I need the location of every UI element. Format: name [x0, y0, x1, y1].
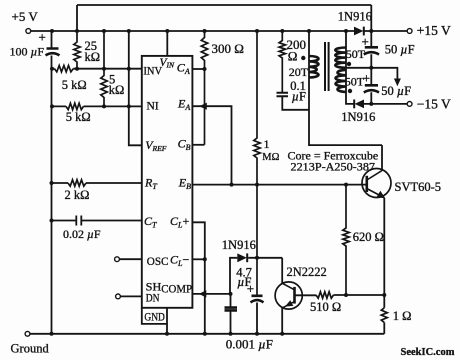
capacitor C1 50uF	[364, 47, 379, 54]
node 510 junctions	[344, 293, 348, 297]
wire INV line	[52, 68, 142, 70]
svg-text:2213P-A250-387: 2213P-A250-387	[291, 160, 376, 174]
svg-text:kΩ: kΩ	[85, 50, 101, 64]
wire CT line	[52, 220, 142, 222]
svg-text:510 Ω: 510 Ω	[310, 300, 341, 314]
wire CA pin	[192, 68, 204, 70]
op-amp U1 box	[142, 56, 193, 308]
wire top loop	[77, 5, 371, 31]
svg-text:50 µF: 50 µF	[381, 84, 411, 98]
resistor 5k horizontal 1	[55, 66, 74, 72]
node secondary phase dot lower	[348, 89, 352, 93]
svg-text:50T: 50T	[345, 74, 365, 88]
transformer primary lead	[309, 31, 382, 145]
wire 0.1uF bottom	[282, 97, 309, 110]
wire Q2 emitter	[281, 308, 283, 334]
capacitor 4.7uF	[251, 296, 264, 303]
svg-text:COMP: COMP	[161, 282, 192, 296]
svg-text:DN: DN	[146, 291, 160, 305]
svg-text:+: +	[362, 34, 369, 49]
wire GND pin	[166, 324, 168, 334]
svg-text:1 Ω: 1 Ω	[393, 309, 412, 323]
wire OSC line	[120, 258, 142, 260]
svg-text:1: 1	[264, 137, 270, 151]
node CA junction	[203, 67, 207, 71]
resistor 510	[316, 292, 334, 298]
capacitor 0.02uF	[76, 216, 81, 226]
svg-text:1N916: 1N916	[341, 110, 375, 124]
svg-text:+: +	[39, 30, 46, 45]
svg-text:kΩ: kΩ	[109, 83, 125, 97]
capacitor 0.1uF	[277, 93, 289, 97]
terminal SH DN	[116, 294, 121, 299]
wire 50uF-1	[370, 31, 372, 68]
svg-text:NI: NI	[147, 98, 159, 112]
terminal +5 V	[26, 29, 31, 34]
wire NI line	[52, 105, 142, 107]
wire COMP line	[192, 293, 230, 295]
svg-text:0.02 µF: 0.02 µF	[63, 227, 101, 241]
svg-text:−15 V: −15 V	[417, 97, 451, 112]
arrow EA	[199, 103, 207, 110]
resistor 200	[279, 31, 285, 92]
node +5V rail junctions	[50, 29, 54, 33]
wire left bus	[51, 31, 53, 334]
wire Q1 emitter	[383, 198, 385, 334]
svg-text:620 Ω: 620 Ω	[353, 230, 384, 244]
svg-text:µF: µF	[292, 90, 306, 104]
op-amp U1 GND box	[142, 308, 167, 324]
svg-text:1N916: 1N916	[338, 9, 372, 23]
resistor 2k	[68, 180, 86, 186]
svg-text:50T: 50T	[346, 47, 366, 61]
svg-text:5 kΩ: 5 kΩ	[66, 110, 91, 124]
arrow COMP	[199, 290, 207, 297]
transformer secondary winding 50T lower	[336, 70, 347, 92]
svg-text:50 µF: 50 µF	[385, 42, 415, 56]
terminal +15V	[407, 29, 412, 34]
node secondary phase dot upper	[347, 62, 351, 66]
svg-text:Ω: Ω	[288, 48, 298, 63]
svg-text:+5 V: +5 V	[12, 9, 39, 24]
svg-text:SeekIC.com: SeekIC.com	[401, 347, 455, 358]
wire EA line	[192, 106, 231, 184]
svg-text:Ground: Ground	[11, 341, 50, 355]
node COMP junction	[229, 292, 233, 296]
wire Q1 collector drop	[381, 145, 383, 171]
svg-text:GND: GND	[144, 310, 165, 324]
wire 0.001uF drop	[230, 294, 232, 334]
svg-text:300 Ω: 300 Ω	[212, 41, 244, 56]
wire Q2 base line	[295, 294, 385, 296]
resistor 5k vertical	[101, 31, 107, 106]
arrow common down	[394, 79, 401, 87]
diode D1 1N916 top	[354, 27, 363, 36]
svg-text:+: +	[363, 71, 370, 86]
capacitor 100uF	[46, 49, 60, 56]
wire diode row	[230, 258, 282, 294]
wire CL- line	[192, 258, 204, 260]
node CL- junction	[203, 257, 207, 261]
svg-text:MΩ: MΩ	[262, 152, 279, 163]
wire CB pin	[192, 144, 204, 146]
resistor 1 Ohm	[381, 308, 387, 323]
resistor 620	[343, 185, 349, 295]
svg-text:2N2222: 2N2222	[287, 265, 327, 279]
svg-text:OSC: OSC	[147, 254, 169, 268]
svg-text:20T: 20T	[289, 65, 309, 79]
capacitor 0.001uF	[225, 308, 238, 311]
node primary phase dot	[301, 56, 305, 60]
node center tap junction	[369, 66, 373, 70]
resistor 1M	[254, 31, 260, 296]
terminal Ground	[25, 331, 30, 336]
svg-text:+: +	[247, 281, 254, 296]
transformer secondary lead	[346, 31, 354, 104]
wire below 4.7uF	[256, 303, 258, 334]
transistor Q2 2N2222	[275, 282, 302, 309]
node RT junction	[50, 181, 54, 185]
wire VREF feed	[129, 31, 142, 145]
wire Q2 collector	[281, 258, 283, 284]
wire CL+ line	[192, 222, 204, 333]
svg-text:SVT60-5: SVT60-5	[395, 180, 442, 194]
terminal OSC	[115, 257, 120, 262]
wire center tap	[346, 68, 397, 79]
node CT junction	[50, 219, 54, 223]
wire RT line	[52, 182, 142, 184]
resistor 25k	[74, 31, 80, 69]
diode D2 1N916 bottom	[355, 100, 364, 109]
node -15V junction	[369, 102, 373, 106]
terminal -15V	[407, 102, 412, 107]
node EB junctions	[230, 183, 234, 187]
node NI junctions	[50, 104, 54, 108]
wire +5V rail	[31, 30, 407, 32]
svg-text:0.001 µF: 0.001 µF	[226, 337, 273, 352]
transformer core	[325, 42, 329, 91]
wire 50uF-2	[370, 68, 372, 104]
svg-text:+15 V: +15 V	[417, 23, 451, 38]
svg-text:5 kΩ: 5 kΩ	[62, 78, 87, 92]
resistor 5k horizontal 2	[66, 103, 84, 109]
transformer primary winding 20T	[309, 56, 319, 78]
wire SH DN line	[121, 295, 142, 297]
svg-text:2 kΩ: 2 kΩ	[65, 188, 90, 202]
transformer secondary winding 50T upper	[335, 48, 346, 68]
node diode line junction	[255, 256, 259, 260]
node INV junctions	[50, 67, 54, 71]
resistor 300	[201, 31, 207, 145]
wire EB line	[192, 184, 366, 186]
wire ground bus	[30, 333, 384, 335]
node ground junctions	[50, 332, 54, 336]
capacitor C2 50uF	[364, 85, 379, 92]
transistor Q1 SVT60-5	[362, 169, 391, 198]
wire -15V line	[364, 103, 407, 105]
pin VIN drop	[166, 31, 168, 56]
svg-text:1N916: 1N916	[222, 238, 256, 252]
svg-text:100 µF: 100 µF	[10, 45, 45, 59]
diode D3 1N916	[237, 253, 247, 262]
